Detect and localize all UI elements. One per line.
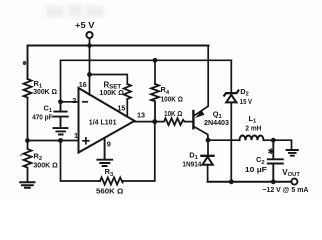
wire: collector node to L1 <box>208 139 240 141</box>
node: R4 junction on second rail <box>153 58 158 63</box>
resistor R2 <box>24 141 32 182</box>
svg-text:2N4403: 2N4403 <box>204 118 229 127</box>
svg-text:15: 15 <box>117 103 125 112</box>
wire: R1 bottom to pin1 node <box>27 98 29 141</box>
node: pin2/C1 junction <box>58 99 63 104</box>
transistor Q1 emitter with arrow <box>194 46 208 116</box>
wire: top +5V rail <box>28 45 209 47</box>
ground below C1 <box>54 128 68 134</box>
svg-text:−12 V @ 5 mA: −12 V @ 5 mA <box>262 185 309 194</box>
wire: pin 2 input <box>61 101 79 103</box>
inductor L1 <box>240 135 264 140</box>
node: +5V junction on top rail <box>87 43 92 48</box>
scan speck near R1 top <box>23 61 26 65</box>
capacitor C1 <box>53 102 68 127</box>
wire: pin 13 output to node <box>135 121 155 123</box>
svg-text:16: 16 <box>79 80 87 89</box>
ground below R2 <box>20 182 34 187</box>
+5V terminal <box>86 32 92 38</box>
wire: +5V stem to top rail <box>89 38 91 45</box>
wire: second rail (pin2/C1 node to D2) <box>61 60 232 102</box>
resistor R3 <box>100 177 123 184</box>
wire: D2 down to output rail <box>230 102 232 181</box>
svg-text:1N914: 1N914 <box>182 160 201 169</box>
wire: R3 right to pin13 node <box>123 122 155 181</box>
node: R3 branch on pin1 wire <box>58 138 63 143</box>
svg-text:560K Ω: 560K Ω <box>96 186 123 195</box>
svg-text:100K Ω: 100K Ω <box>161 94 183 103</box>
svg-text:+5 V: +5 V <box>75 21 95 30</box>
node: L1/C2/ground junction <box>271 138 276 143</box>
svg-text:10 µF: 10 µF <box>245 165 268 174</box>
svg-text:9: 9 <box>107 140 111 149</box>
node: D2 to output rail junction <box>229 179 234 184</box>
wire: left rail from top rail to R1 <box>27 46 29 80</box>
ground pin 9 <box>97 138 112 166</box>
svg-text:2: 2 <box>72 96 76 105</box>
wire: pin 15 stub from RSET to op-amp <box>126 99 128 117</box>
wire: R4 top from second rail <box>154 60 156 84</box>
scan speck near R2 <box>20 154 22 156</box>
svg-text:300K Ω: 300K Ω <box>33 87 57 96</box>
transistor Q1 2N4403 base bar <box>192 111 194 128</box>
node: RSET branch junction <box>87 72 92 77</box>
diode D1 1N914 <box>201 155 213 157</box>
node: collector/L1/D1 junction <box>206 138 211 143</box>
ground at output filter <box>287 150 298 156</box>
resistor R4 <box>151 84 159 122</box>
svg-text:2 mH: 2 mH <box>245 124 261 133</box>
wire: pin 1 input <box>28 140 79 142</box>
transistor Q1 collector <box>194 127 208 141</box>
svg-text:300K Ω: 300K Ω <box>33 160 57 169</box>
svg-text:1/4 L101: 1/4 L101 <box>89 118 117 127</box>
op-amp plus sign pin 1 <box>83 138 89 144</box>
faint scan watermark top-left <box>46 5 104 17</box>
wire: to output ground <box>273 140 291 149</box>
wire: branch to RSET top <box>90 75 128 85</box>
node: C2 on output rail <box>271 179 276 184</box>
resistor RSET <box>124 84 131 99</box>
resistor 10K (base) <box>155 118 193 125</box>
node: R1/R2/pin1 junction <box>25 138 30 143</box>
op-amp minus sign pin 2 <box>83 101 87 103</box>
resistor R1 <box>24 79 32 97</box>
wire: D1 down to output rail <box>207 165 209 182</box>
wire: L1 to C2 node <box>264 139 274 141</box>
svg-text:100K Ω: 100K Ω <box>99 88 124 97</box>
svg-text:470 pF: 470 pF <box>32 113 53 122</box>
polarity mark C2 <box>269 149 273 154</box>
diode D2 zener 15V <box>224 91 238 96</box>
svg-text:13: 13 <box>137 111 145 120</box>
wire: bottom output rail <box>208 181 292 183</box>
svg-text:10K Ω: 10K Ω <box>164 109 182 118</box>
node: pin13/R4/R3/10K junction <box>152 119 157 124</box>
wire: second rail down to D2 <box>230 60 232 92</box>
terminal VOUT <box>291 179 297 185</box>
svg-text:1: 1 <box>74 131 78 140</box>
capacitor C2 <box>268 140 283 182</box>
wire: +5V vertical down to pin 16 <box>89 46 91 95</box>
op-amp U1 1/4 L101 triangle <box>79 88 135 153</box>
wire: down from pin1 node to R3 <box>61 141 101 182</box>
wire: collector node down to D1 <box>207 140 209 155</box>
svg-text:15 V: 15 V <box>240 97 252 106</box>
